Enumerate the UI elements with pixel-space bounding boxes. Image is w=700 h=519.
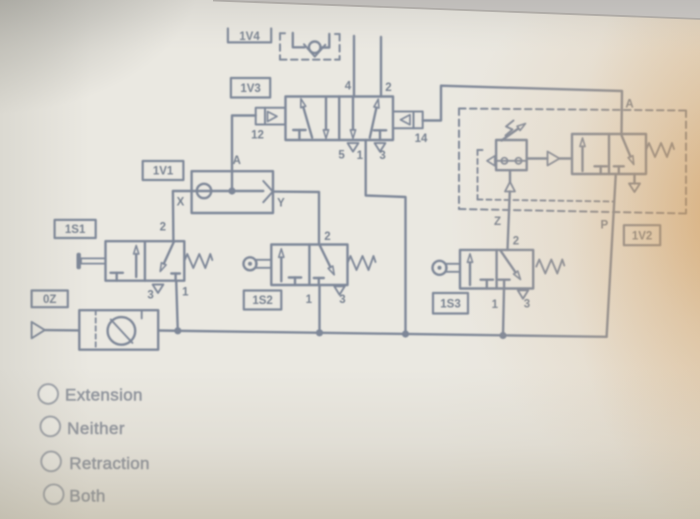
internal pilot line (dashed) of 1V2 (478, 150, 614, 202)
wire: 1S1 port2 up to 1V1 port X (173, 191, 192, 241)
port labels of 1V2 (494, 99, 634, 232)
port labels of 1S3 (492, 236, 531, 311)
wire: 1V1 output A up and to pilot 12 (232, 116, 256, 192)
wire: 1S2 port1 to bus (318, 285, 320, 333)
valve 1V2 (pressure sequence valve, dashed enclosure) (459, 109, 686, 214)
wire: riser from bus to valve 1V2 port P (607, 174, 616, 337)
label 1V2 (624, 225, 660, 245)
wire: 1V3 port 2 riser to cylinder (380, 37, 382, 97)
valve 1V1 (two-pressure AND valve) (192, 171, 273, 213)
wire: 1V1 port Y to 1S2 port 2 (273, 192, 319, 245)
valve 1S3 (3/2-way roller lever valve) (433, 250, 565, 299)
wire: main supply bus P (158, 331, 606, 337)
valve 1V4 (check valve, one-way flow control, cropped) (280, 33, 340, 60)
port labels of 1V1 (177, 155, 286, 210)
radio option: Extension (38, 384, 142, 404)
radio option: Both (44, 485, 106, 506)
wire: 1S1 port1 to bus (176, 281, 178, 331)
radio option: Neither (41, 417, 126, 438)
valve 1S2 (3/2-way roller lever valve) (244, 245, 376, 295)
valve 1V3 (5/2-way double pilot valve) (286, 97, 394, 141)
label 1S2 (244, 291, 281, 310)
pilot port 14 of 1V3 (393, 112, 423, 129)
amplifier triangle between sensor and 3/2 valve (527, 152, 572, 166)
adjustable spring of 1V2 (502, 121, 526, 141)
wire: pilot 14 from valve 1V2 output A (423, 86, 622, 134)
exhaust port 5 of 1V3 (348, 143, 359, 152)
label 1S1 (55, 220, 96, 238)
wire: 1V3 port 1 down to bus (366, 140, 406, 334)
junction: 1V1 output node A (228, 187, 235, 194)
label 0Z (32, 291, 68, 308)
valve 1S1 (3/2-way pushbutton valve) (77, 241, 213, 293)
pilot symbol Z (triangle) (505, 170, 515, 191)
junction: bus / 1S3 port 1 (499, 332, 506, 339)
junction: bus / 1S1 port 1 (174, 327, 181, 334)
port labels of 1S2 (306, 231, 346, 306)
port labels of 1S1 (147, 222, 189, 302)
3/2 valve of 1V2 (572, 134, 674, 192)
compressed air source 0Z (32, 310, 159, 350)
label 1V1 (143, 161, 184, 180)
exhaust port 3 of 1V3 (375, 143, 386, 152)
label 1S3 (433, 293, 468, 314)
pilot port 12 of 1V3 (256, 108, 286, 125)
wire: 1V3 port 4 riser to cylinder (353, 36, 355, 97)
junction: bus / 1V3 port 1 (402, 330, 409, 337)
radio option: Retraction (41, 452, 149, 473)
pressure setting element of 1V2 (487, 140, 527, 170)
junction: bus / 1S2 port 1 (316, 329, 323, 336)
label 1V3 (231, 78, 270, 98)
wire: 1S3 port2 up to pilot Z of 1V2 (508, 192, 510, 250)
label 1V4 (228, 29, 271, 44)
port labels of 1V3 (251, 81, 428, 163)
wire: 1S3 port1 to bus (503, 289, 504, 336)
